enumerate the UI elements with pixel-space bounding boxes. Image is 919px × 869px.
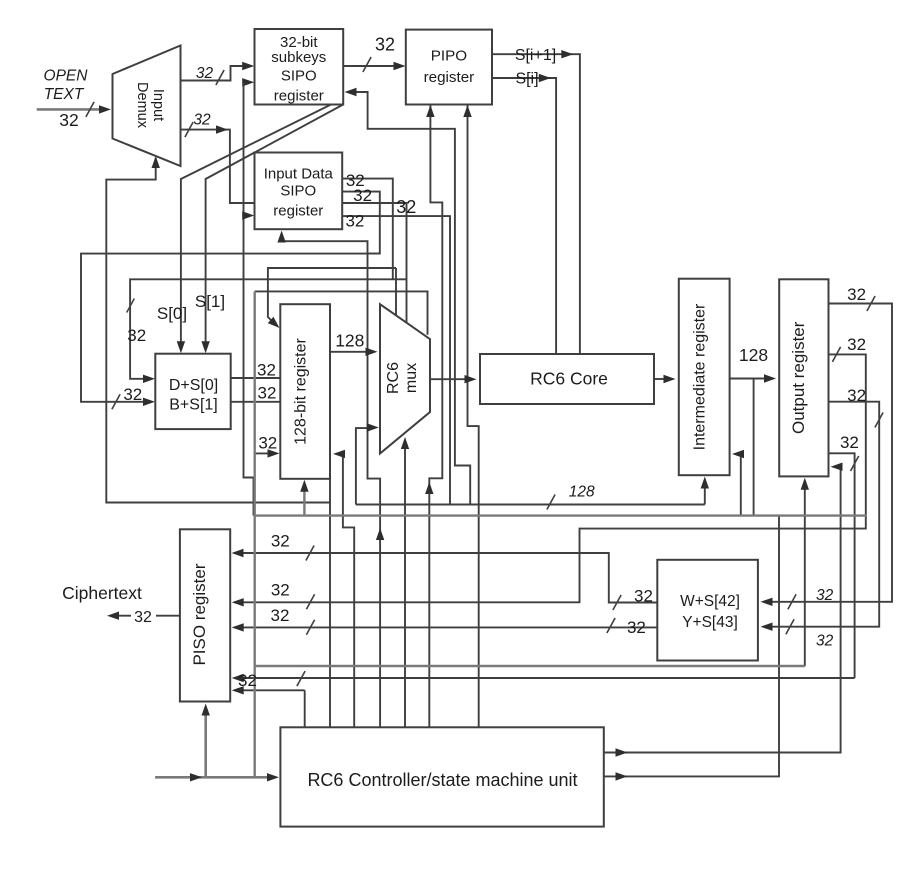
svg-text:32: 32 bbox=[345, 212, 364, 231]
svg-text:32: 32 bbox=[271, 581, 290, 600]
svg-text:32: 32 bbox=[134, 609, 152, 626]
svg-text:32: 32 bbox=[816, 633, 834, 650]
svg-text:SIPO: SIPO bbox=[281, 68, 317, 85]
svg-text:32: 32 bbox=[59, 110, 78, 130]
svg-text:32: 32 bbox=[271, 606, 290, 625]
svg-text:PISO register: PISO register bbox=[190, 563, 209, 665]
svg-text:32: 32 bbox=[847, 285, 866, 304]
svg-text:32: 32 bbox=[123, 385, 142, 404]
svg-text:32: 32 bbox=[193, 112, 211, 129]
svg-text:Y+S[43]: Y+S[43] bbox=[682, 614, 738, 631]
svg-text:32: 32 bbox=[238, 671, 257, 690]
svg-text:OPEN: OPEN bbox=[44, 68, 89, 85]
svg-text:PIPO: PIPO bbox=[431, 48, 467, 65]
svg-text:128: 128 bbox=[739, 345, 768, 365]
svg-text:128: 128 bbox=[569, 484, 595, 501]
svg-text:32: 32 bbox=[127, 326, 146, 345]
svg-text:TEXT: TEXT bbox=[44, 86, 85, 103]
svg-text:128-bit register: 128-bit register bbox=[293, 337, 310, 444]
svg-text:S[1]: S[1] bbox=[195, 292, 225, 311]
svg-text:32: 32 bbox=[196, 65, 214, 82]
svg-text:128: 128 bbox=[335, 331, 364, 351]
svg-text:32: 32 bbox=[396, 197, 416, 217]
svg-text:32: 32 bbox=[847, 386, 866, 405]
svg-text:32: 32 bbox=[375, 35, 395, 55]
svg-text:Intermediate register: Intermediate register bbox=[692, 303, 709, 450]
svg-text:D+S[0]: D+S[0] bbox=[169, 377, 218, 394]
svg-text:register: register bbox=[274, 88, 324, 105]
svg-text:mux: mux bbox=[403, 363, 420, 393]
svg-text:RC6 Core: RC6 Core bbox=[530, 369, 608, 389]
svg-text:subkeys: subkeys bbox=[271, 49, 326, 66]
svg-text:B+S[1]: B+S[1] bbox=[169, 397, 217, 414]
svg-text:RC6: RC6 bbox=[385, 362, 402, 394]
svg-text:32: 32 bbox=[627, 618, 646, 637]
svg-text:32: 32 bbox=[634, 587, 653, 606]
svg-text:32: 32 bbox=[353, 186, 372, 205]
svg-text:Input: Input bbox=[150, 89, 166, 121]
svg-text:S[i]: S[i] bbox=[515, 71, 538, 88]
svg-text:Ciphertext: Ciphertext bbox=[62, 583, 142, 603]
svg-text:32: 32 bbox=[847, 335, 866, 354]
svg-text:W+S[42]: W+S[42] bbox=[680, 593, 740, 610]
svg-text:register: register bbox=[424, 69, 475, 86]
svg-text:RC6 Controller/state machine u: RC6 Controller/state machine unit bbox=[307, 770, 577, 790]
svg-text:Output register: Output register bbox=[789, 321, 808, 434]
svg-text:32: 32 bbox=[271, 532, 290, 551]
svg-text:Input Data: Input Data bbox=[264, 166, 334, 183]
svg-text:32: 32 bbox=[840, 433, 859, 452]
svg-text:register: register bbox=[273, 203, 323, 220]
svg-text:32: 32 bbox=[816, 587, 834, 604]
svg-text:32: 32 bbox=[257, 361, 276, 380]
svg-text:S[i+1]: S[i+1] bbox=[515, 47, 556, 64]
svg-text:Demux: Demux bbox=[134, 82, 150, 129]
svg-text:SIPO: SIPO bbox=[280, 183, 316, 200]
svg-text:S[0]: S[0] bbox=[157, 304, 187, 323]
svg-text:32: 32 bbox=[258, 434, 277, 453]
svg-text:32: 32 bbox=[258, 384, 277, 403]
